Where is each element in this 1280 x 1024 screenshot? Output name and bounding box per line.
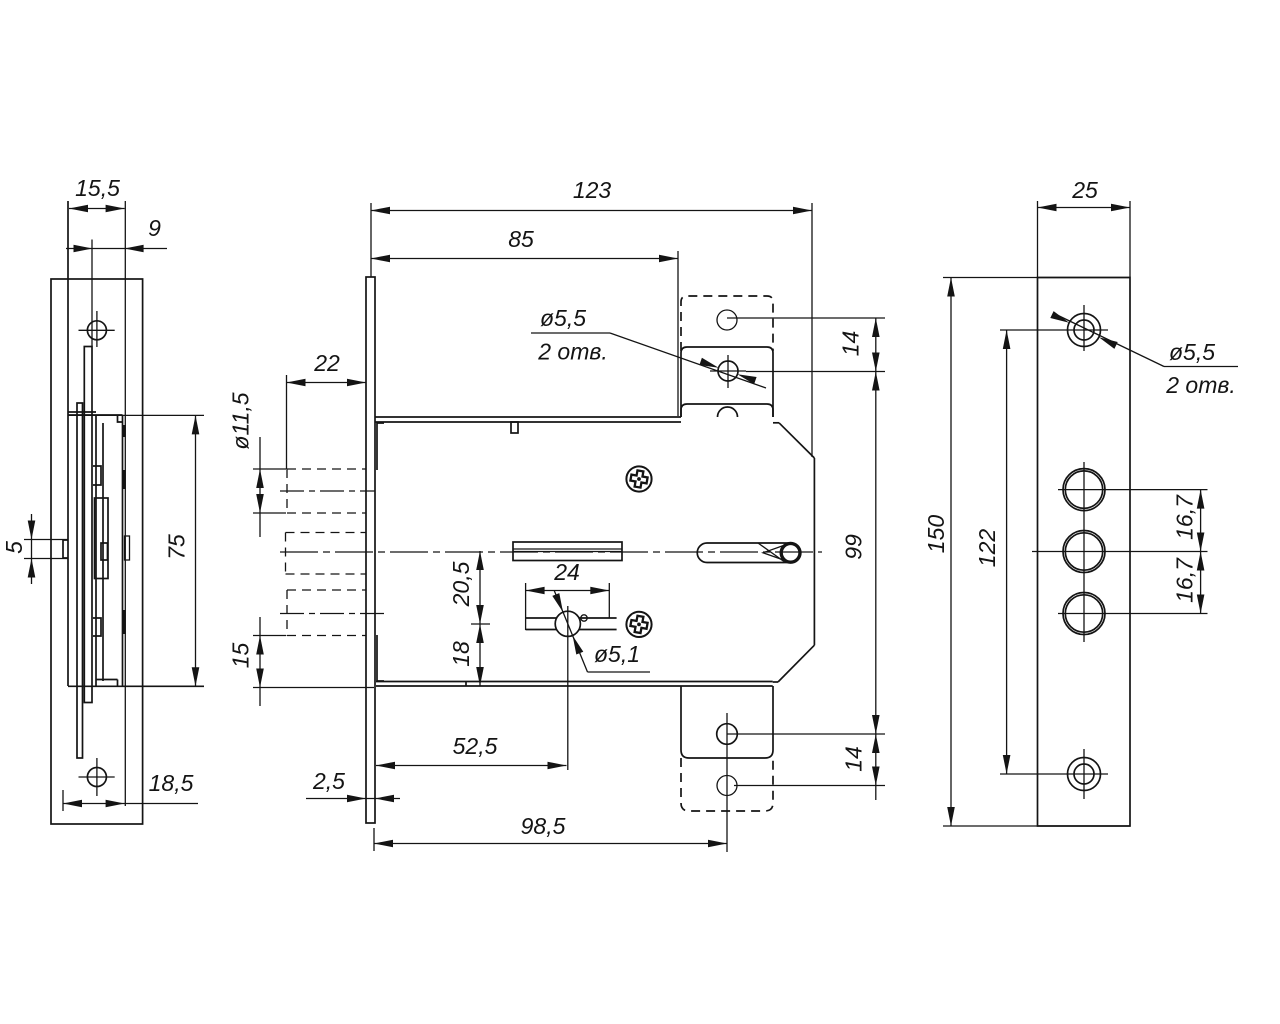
middle view: bolt stub 1 hidden lines [287, 468, 366, 470]
left view: thick tick marks on right wall [123, 425, 126, 437]
svg-text:ø5,1: ø5,1 [594, 641, 640, 667]
right view: top screw hole countersink [1068, 314, 1101, 347]
svg-text:123: 123 [573, 177, 612, 203]
svg-text:14: 14 [841, 746, 867, 772]
svg-text:14: 14 [838, 331, 864, 357]
svg-text:ø5,5: ø5,5 [540, 305, 586, 331]
svg-text:150: 150 [923, 515, 949, 554]
middle view: upper bracket third position top [681, 404, 773, 417]
svg-text:75: 75 [164, 534, 190, 560]
middle view: face plate [366, 277, 375, 823]
dimension 14 top [875, 318, 877, 800]
middle view: key slot [513, 542, 622, 561]
svg-text:122: 122 [974, 529, 1000, 568]
left view: right extension line [124, 201, 126, 806]
left view: long thin plate B [77, 403, 83, 758]
left view: case bottom edge [68, 685, 204, 687]
svg-text:9: 9 [148, 215, 161, 241]
middle view: bolt stub 3 hidden lines [287, 589, 366, 591]
left view: top screw hole [87, 321, 106, 340]
middle view: lower bracket solid [681, 686, 773, 758]
left view: protruding 5mm tab [63, 540, 68, 558]
middle view: case left wall hooks [377, 423, 384, 470]
middle view: small tab on top edge [511, 422, 518, 433]
left view: upper hook tab [93, 466, 101, 485]
middle view: upper bracket solid position [681, 347, 773, 417]
left view: inner tall plate [95, 498, 109, 579]
middle view: main horizontal centerline [280, 551, 822, 553]
left view: bottom screw hole centerlines [79, 776, 115, 778]
middle view: bolt stub 2 hidden lines [286, 532, 367, 534]
svg-text:16,7: 16,7 [1172, 494, 1198, 540]
svg-text:2 отв.: 2 отв. [537, 339, 608, 365]
svg-text:22: 22 [313, 350, 340, 376]
left view: bottom screw hole [87, 768, 106, 787]
middle view: keyhole cross slot [526, 617, 557, 619]
left view: top screw hole centerlines [79, 329, 115, 331]
left view: inner vertical plate line x96 [95, 416, 97, 686]
left view: inner vertical plate line x103 [102, 423, 104, 681]
svg-text:ø11,5: ø11,5 [228, 392, 254, 449]
right view: bottom screw hole [1074, 764, 1094, 784]
svg-text:24: 24 [553, 559, 580, 585]
svg-text:99: 99 [841, 534, 867, 560]
left view: long thin plate A [84, 347, 92, 703]
svg-text:98,5: 98,5 [521, 813, 566, 839]
left view: strike/face plate outline [51, 279, 143, 824]
middle view: upper bracket third hole arc [718, 407, 738, 417]
svg-text:15: 15 [228, 643, 254, 669]
right view: cylinder hole 2 [1063, 531, 1105, 573]
middle view: keyhole vertical centerline [567, 606, 569, 770]
right view: cylinder hole 1 [1063, 469, 1105, 511]
middle view: body right edge with chamfers [773, 422, 779, 424]
left view: small tab on right wall [125, 536, 130, 560]
left view: small tab on tall plate [101, 543, 108, 560]
middle view: lower bracket hole ø5,5 [717, 724, 738, 745]
right view: cylinder holes centerline vertical [1083, 462, 1085, 642]
svg-text:18: 18 [448, 641, 474, 667]
svg-text:2,5: 2,5 [312, 768, 345, 794]
left view: case left wall / extension line [67, 201, 69, 686]
middle view: upper bracket dashed position [681, 296, 773, 351]
middle view: upper bracket hole ø5,5 [718, 361, 738, 381]
right view: face plate outline [1038, 278, 1131, 827]
middle view: lower bracket dashed hole [717, 776, 737, 796]
svg-text:85: 85 [508, 226, 534, 252]
right view: cylinder hole 3 [1063, 593, 1105, 635]
svg-text:25: 25 [1071, 177, 1098, 203]
svg-text:18,5: 18,5 [149, 770, 194, 796]
svg-text:15,5: 15,5 [75, 175, 120, 201]
middle view: lower bracket dashed position [681, 758, 773, 811]
right view: bottom screw hole countersink [1068, 758, 1101, 791]
middle view: deadbolt diagonal mark [758, 543, 784, 562]
middle view: upper screw head [626, 466, 651, 491]
svg-text:52,5: 52,5 [453, 733, 498, 759]
middle view: deadbolt [697, 543, 784, 563]
middle view: body bottom edge [376, 685, 773, 687]
svg-text:ø5,5: ø5,5 [1169, 339, 1215, 365]
right view: top screw hole [1074, 320, 1094, 340]
middle view: keyhole circle ø5,1 [555, 611, 580, 636]
middle view: deadbolt pivot circle [781, 543, 800, 562]
left view: case top edge [68, 414, 123, 416]
svg-text:2 отв.: 2 отв. [1165, 372, 1236, 398]
svg-text:16,7: 16,7 [1172, 557, 1198, 603]
left view: lower hook tab [93, 618, 101, 636]
svg-text:20,5: 20,5 [448, 561, 474, 607]
middle view: body top edge [375, 416, 681, 418]
svg-text:5: 5 [1, 541, 27, 554]
middle view: lower screw head [626, 612, 651, 637]
left view: case right wall [122, 415, 124, 686]
middle view: upper bracket dashed hole [717, 310, 737, 330]
left view: case corner hooks [118, 415, 123, 422]
